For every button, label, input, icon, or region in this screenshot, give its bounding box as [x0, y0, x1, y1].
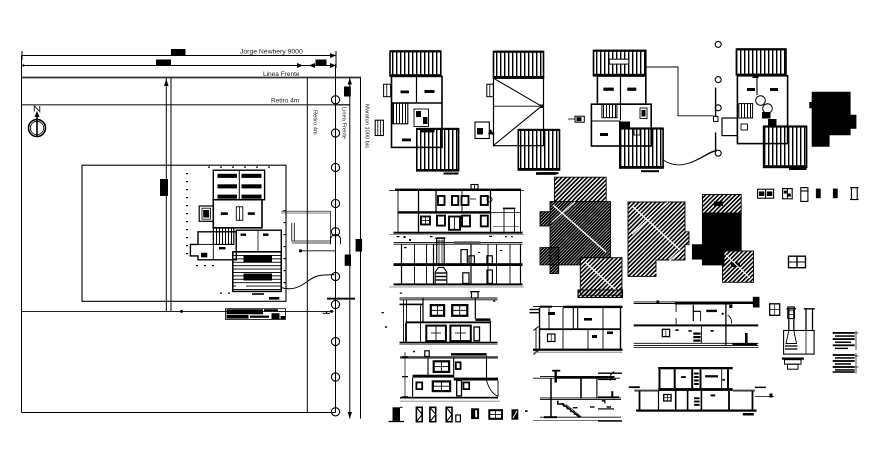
chimney [572, 307, 574, 329]
top pergola [494, 52, 544, 78]
top pergola [736, 49, 786, 75]
small black step mark below deck [269, 297, 279, 300]
upper window [434, 361, 449, 372]
upper body [597, 76, 645, 104]
top chord [394, 242, 523, 244]
bottom-right pergola [620, 128, 663, 168]
chimney [472, 292, 479, 298]
left small box [384, 84, 391, 97]
stair block [213, 228, 234, 245]
black dash above [536, 172, 556, 175]
small window black [472, 409, 478, 418]
wide window [489, 410, 502, 419]
lower body [405, 323, 407, 341]
left frame bars [400, 304, 424, 306]
left black tab [692, 245, 702, 259]
service pipe double L [291, 223, 293, 241]
left box [722, 118, 737, 136]
specks [404, 247, 407, 248]
stairs [602, 104, 617, 118]
retiro tick to right lines [336, 104, 350, 106]
interior black blobs [762, 112, 771, 119]
thick dash over circle [327, 298, 355, 300]
walls [539, 308, 541, 350]
sliding doors [426, 326, 471, 342]
hall bar [420, 128, 435, 132]
ridge / valley lines [494, 78, 542, 106]
body [784, 331, 815, 355]
mid wall [392, 102, 443, 104]
top chord [634, 301, 757, 303]
double vertical reference lines [165, 78, 167, 311]
ground band [400, 397, 498, 399]
room dashes [573, 407, 578, 408]
wavy path bottom left [690, 150, 717, 163]
upper windows [431, 305, 468, 316]
top pergola [390, 51, 441, 76]
body [737, 76, 787, 144]
tree row vertical line [335, 64, 337, 413]
mid floor thick [658, 388, 733, 391]
property bottom border [22, 412, 336, 414]
top hatch [702, 194, 741, 213]
top chord [400, 297, 498, 299]
floor band [398, 211, 491, 213]
bath cluster [414, 109, 429, 127]
interior walls upper [675, 304, 677, 313]
ground [533, 349, 623, 351]
mid floor slab [394, 263, 523, 266]
base [636, 410, 757, 412]
dimension tick specks around house [186, 167, 286, 294]
linea frente thick line [22, 77, 362, 79]
chimney [471, 185, 478, 190]
lower body [412, 378, 414, 397]
lower service line with dot [301, 250, 336, 252]
interior below mid [662, 329, 669, 336]
left appendage [199, 206, 213, 221]
carport connector line to right [281, 210, 330, 212]
hatched slab on top [454, 241, 481, 244]
top chord [658, 367, 733, 369]
upper medium hatch [554, 177, 606, 201]
interior core small rect [236, 207, 243, 221]
stairs [739, 104, 753, 118]
garage mid divider [238, 170, 240, 200]
roof outline [494, 78, 544, 146]
specks [400, 293, 402, 294]
bottom band [634, 342, 759, 344]
fireplace [435, 267, 447, 283]
vertical text labels right black blobs [356, 239, 363, 252]
left dim marks [530, 309, 540, 310]
lower door/window [463, 273, 469, 284]
mid thick line [634, 324, 759, 326]
top thin line [400, 356, 498, 358]
black body [702, 213, 741, 265]
lower-right lighter hatch [580, 258, 622, 296]
left appendage [575, 116, 584, 122]
bottom [540, 416, 621, 418]
left dim dashes [598, 373, 622, 422]
small specks below [397, 236, 400, 237]
lower horizontal line y311 [22, 310, 334, 312]
white seam [553, 205, 606, 252]
interior trees [756, 96, 766, 106]
upper window dashes [681, 376, 686, 378]
upper divider [416, 76, 418, 103]
posts [401, 244, 403, 283]
lower room dash [402, 139, 411, 142]
left tab 1 [540, 212, 550, 226]
black label block right top [344, 87, 351, 97]
dimension line 2 [22, 51, 336, 68]
upper body [427, 358, 429, 376]
ground band [394, 283, 523, 285]
upper door/windows [461, 250, 467, 264]
last small [512, 410, 517, 419]
right porch [503, 208, 516, 210]
ground band [400, 342, 498, 344]
body outline [392, 76, 443, 147]
living block right [236, 230, 281, 252]
roof band [395, 189, 521, 191]
upper windows [438, 196, 488, 205]
mid floor band [406, 321, 491, 323]
bottom-right pergola [518, 130, 559, 170]
lower-left rooms [190, 232, 236, 260]
retiro 4m line [22, 104, 350, 106]
porch curve right [487, 381, 499, 397]
mid bands [413, 375, 454, 378]
window dashes upper rooms [401, 91, 410, 94]
chimney black bars between walls [694, 373, 699, 386]
trees (circles) [331, 96, 339, 416]
right black box [753, 297, 760, 307]
deck / patio [233, 252, 281, 292]
property right border [306, 78, 308, 413]
upper walls [659, 369, 661, 388]
north symbol [29, 106, 46, 137]
linea frente vertical dim line [349, 78, 351, 419]
chimney [425, 351, 429, 357]
connector to plan 4 [646, 67, 714, 116]
base [782, 358, 804, 360]
svg-text:Retiro 4m: Retiro 4m [312, 110, 318, 135]
interior marks [548, 312, 555, 315]
small right window strip [474, 327, 480, 341]
black door [393, 407, 401, 421]
lower walls [639, 391, 641, 410]
bottom right hatch [723, 251, 754, 282]
inner lot rectangle [82, 165, 286, 301]
garage pergola outline [213, 170, 264, 200]
door leaf symbols [416, 407, 422, 421]
garage slats left column [218, 174, 262, 199]
stairs [393, 103, 408, 124]
wall verticals [397, 191, 399, 232]
left tab 2 [540, 248, 559, 265]
svg-text:Retiro 4m: Retiro 4m [271, 98, 299, 105]
top-left riser [552, 370, 560, 372]
svg-text:Linea Frente: Linea Frente [341, 107, 347, 139]
wavy link [663, 151, 717, 165]
lower windows [416, 382, 422, 389]
interior walls [620, 104, 622, 120]
left L-marks [629, 386, 640, 388]
street right line [360, 78, 362, 419]
stairs [558, 401, 564, 407]
dark main body [550, 202, 611, 274]
walls [550, 378, 552, 416]
svg-text:Jorge Newbery 9000: Jorge Newbery 9000 [240, 49, 303, 56]
tiny left mark [770, 394, 773, 398]
trees left column [715, 41, 721, 47]
upper room block [213, 200, 262, 228]
left small box [487, 84, 494, 97]
upper body [422, 298, 424, 323]
top pergola [594, 51, 646, 76]
chimney tall [436, 238, 438, 263]
small bent mark lower [326, 311, 328, 313]
black label on double line [160, 179, 168, 196]
mid band [540, 397, 621, 399]
lower windows [421, 216, 488, 230]
title strip near bottom [226, 309, 286, 320]
right ticks [610, 372, 614, 376]
svg-text:Maraton 1000 bis: Maraton 1000 bis [364, 104, 370, 148]
line + black sq + window syms under roofplan3 [718, 302, 753, 304]
top chord [533, 306, 623, 308]
sewer wavy line [281, 275, 335, 289]
far left box [375, 120, 383, 135]
ground band [394, 232, 523, 234]
far left box with blob [475, 122, 489, 139]
top double line [540, 375, 615, 377]
lower window cross [664, 395, 671, 402]
lower body [591, 104, 651, 146]
bottom-right pergola [417, 129, 459, 171]
bottom-right pergola [764, 126, 807, 167]
flat roof thick bar [451, 353, 487, 356]
dimension line Jorge Newbery [22, 49, 336, 60]
left pole ticks [404, 352, 406, 399]
property left border [21, 55, 23, 413]
window dashes upper room [221, 212, 228, 215]
stairs bars [694, 397, 700, 406]
service connection box on tree line [331, 235, 341, 245]
small dash above title [252, 293, 264, 295]
mid floor [540, 328, 622, 330]
base dash under pergola [444, 173, 459, 175]
